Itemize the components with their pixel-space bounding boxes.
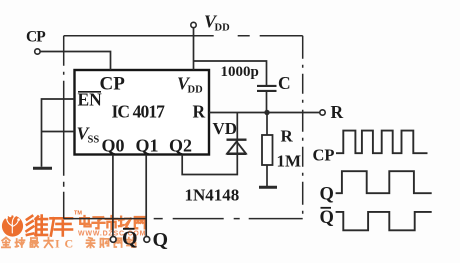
svg-text:R: R [331,102,344,122]
svg-text:CP: CP [313,146,335,165]
svg-text:Q1: Q1 [136,136,159,156]
svg-text:DD: DD [215,23,231,34]
svg-text:DD: DD [188,85,204,96]
svg-text:C: C [65,237,74,251]
svg-text:Q0: Q0 [102,136,125,156]
svg-text:IC 4017: IC 4017 [112,102,166,122]
svg-text:Q: Q [320,208,334,228]
svg-text:1M: 1M [277,152,302,171]
svg-text:Q: Q [153,229,169,251]
svg-text:CP: CP [100,74,126,95]
svg-text:Q: Q [122,228,138,250]
svg-text:VD: VD [213,119,238,138]
svg-text:I: I [55,237,60,251]
svg-text:1000p: 1000p [221,64,259,80]
svg-text:1N4148: 1N4148 [185,186,240,205]
svg-text:CP: CP [26,28,46,45]
svg-text:R: R [281,127,294,146]
svg-text:SS: SS [88,135,100,146]
svg-text:C: C [278,73,291,93]
svg-text:R: R [193,102,206,122]
svg-text:Q2: Q2 [169,136,192,156]
svg-text:TM: TM [74,211,82,217]
svg-text:Q: Q [320,185,334,205]
